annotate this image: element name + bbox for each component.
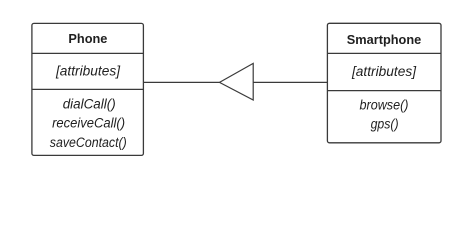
svg-text:dialCall(): dialCall()	[63, 97, 116, 112]
wire: Phone right edge to triangle tip	[143, 81, 219, 83]
Smartphone divider 1	[327, 52, 441, 54]
Smartphone divider 2	[327, 90, 441, 92]
Phone divider 2	[32, 88, 143, 90]
svg-text:receiveCall(): receiveCall()	[52, 116, 125, 131]
class Smartphone box	[327, 23, 441, 143]
generalization arrowhead (hollow triangle)	[220, 63, 254, 100]
svg-text:[attributes]: [attributes]	[55, 63, 121, 78]
wire: triangle base to Smartphone left edge	[253, 81, 327, 83]
svg-text:Phone: Phone	[68, 31, 107, 46]
svg-text:saveContact(): saveContact()	[50, 135, 127, 150]
svg-text:gps(): gps()	[371, 117, 399, 132]
svg-text:[attributes]: [attributes]	[351, 64, 417, 79]
svg-text:browse(): browse()	[360, 98, 409, 113]
class Phone box	[32, 23, 143, 155]
svg-text:Smartphone: Smartphone	[347, 32, 422, 47]
Phone divider 1	[32, 52, 143, 54]
